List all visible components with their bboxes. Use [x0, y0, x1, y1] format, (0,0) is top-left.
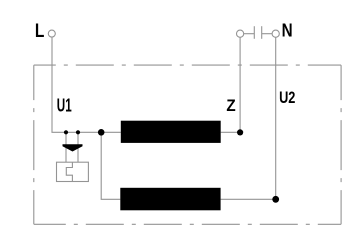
svg-text:U1: U1: [57, 96, 72, 116]
svg-text:U2: U2: [279, 88, 295, 107]
svg-text:N: N: [282, 21, 293, 42]
svg-text:L: L: [35, 20, 45, 42]
svg-text:Z: Z: [226, 96, 235, 115]
